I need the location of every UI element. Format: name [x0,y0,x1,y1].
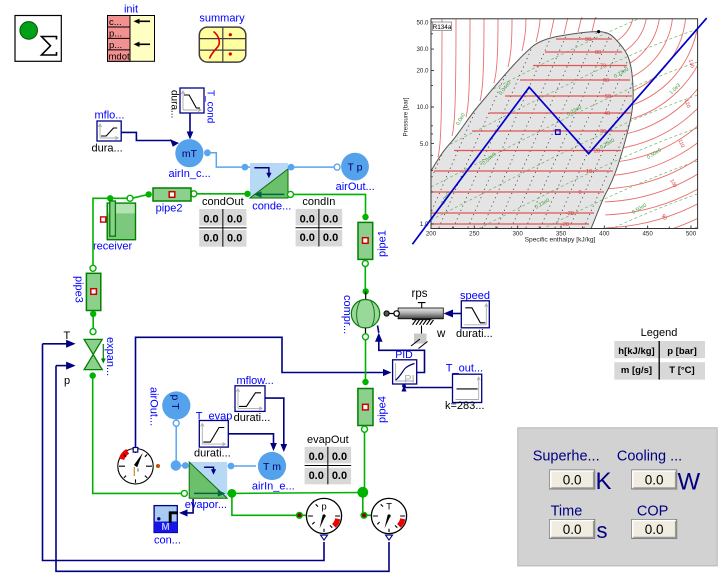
svg-text:0.0: 0.0 [203,213,218,225]
expansion valve [84,337,116,376]
wire valve to evaporator [90,372,96,378]
superheat value box [550,470,595,489]
temperature gauge T [371,498,406,540]
R134a label [433,22,452,31]
wire condenser to pipe2 [244,191,250,197]
condenser heat exchanger [250,163,291,213]
svg-text:mT: mT [182,148,198,160]
svg-text:0.0: 0.0 [645,522,664,537]
svg-text:250: 250 [469,231,480,238]
svg-text:conde...: conde... [252,201,291,213]
wire pipe1 to compressor [362,261,368,267]
pipe3 [73,273,101,310]
summary record icon U_sigma [15,16,61,62]
init block [108,4,155,63]
svg-text:0.0: 0.0 [203,232,218,244]
wire T_cond to airIn_cond [189,113,191,136]
svg-text:condIn: condIn [302,196,335,208]
svg-text:w: w [436,328,446,340]
evaporator heat exchanger [185,462,227,511]
red isotherms two-phase region [431,39,632,224]
svg-text:M: M [161,522,169,533]
svg-text:Pressure [bar]: Pressure [bar] [403,97,410,136]
svg-text:p T: p T [169,395,181,411]
boundary airOut_evap (p T) [148,387,191,426]
svg-text:0.0: 0.0 [563,473,582,488]
svg-text:-20: -20 [566,211,574,217]
display table condOut [199,196,246,247]
svg-text:s: s [597,518,608,543]
p-h diagram chart background [431,19,698,229]
svg-text:-28: -28 [561,222,569,228]
wire junction to p gauge [232,493,297,515]
refrigeration cycle blue line [412,18,706,244]
wire compressor to pipe4 [365,328,367,334]
svg-text:dura...: dura... [92,143,123,155]
saturation dome outline [431,32,633,229]
junction node evap outlet [357,487,368,498]
svg-text:airIn_e...: airIn_e... [252,481,295,493]
svg-text:10: 10 [586,169,592,175]
svg-text:500: 500 [686,231,697,238]
svg-text:90: 90 [585,37,591,43]
critical point [597,30,600,33]
svg-text:PI: PI [404,374,414,386]
svg-text:400: 400 [599,231,610,238]
ramp source mflow (evap air) [234,375,274,424]
boundary airOut_cond (T p) [336,153,375,193]
svg-text:pipe2: pipe2 [156,203,183,215]
wire pipe2 to receiver [146,191,152,197]
svg-text:Legend: Legend [641,327,678,339]
wire T_out to PID setpoint [404,387,453,390]
svg-text:durati...: durati... [234,412,271,424]
boundary airIn_evap (T m) [252,452,295,493]
wire evaporator to controller [186,499,193,513]
svg-text:10.0: 10.0 [416,104,429,111]
wire receiver to pipe3 [93,198,110,265]
valve input p arrow [56,365,67,367]
compressor [341,295,380,334]
saturation dome fill [431,32,633,229]
svg-text:p: p [64,375,70,387]
svg-text:summary: summary [199,13,245,25]
legend table [614,327,705,380]
air wire airIn_cond to condenser [204,149,211,156]
air wire condenser to airOut_cond [288,164,295,171]
wire PID to compressor speed input [379,341,425,373]
pipe1 [358,222,389,259]
svg-text:pipe1: pipe1 [377,230,389,257]
svg-text:T_cond: T_cond [205,90,216,123]
air wire airOut_evap to evaporator [173,420,179,426]
svg-text:0: 0 [578,190,581,196]
svg-text:T m: T m [263,461,281,473]
chart frame and axes [431,19,698,229]
svg-text:dura...: dura... [169,90,180,118]
svg-text:Cooling ...: Cooling ... [617,449,682,465]
svg-text:init: init [124,4,138,16]
svg-text:p...: p... [109,28,122,39]
air wire evaporator to airIn_evap [228,463,235,470]
evapOut display table [305,434,352,485]
valve input T arrow [43,343,68,345]
feedback wire p (from p gauge) [56,366,389,572]
svg-text:30.0: 30.0 [416,46,429,53]
svg-text:80: 80 [595,50,601,56]
wire pipe3 to expansion valve [90,311,96,317]
red isotherms liquid region [438,17,596,157]
ramp source T_evap [194,410,232,459]
svg-text:Superhe...: Superhe... [533,449,600,465]
svg-text:50: 50 [605,94,611,100]
constant block T_out_evap [445,363,484,413]
pipe2 [153,188,191,215]
pipe4 [358,389,389,426]
svg-text:compr...: compr... [341,295,353,334]
svg-text:durati...: durati... [456,328,493,340]
rotational speed source rps [384,288,446,349]
svg-text:W: W [678,469,701,496]
wire T_evap to airIn_evap [228,434,273,446]
feedback wire T (from T gauge) [43,344,325,561]
svg-text:5.0: 5.0 [420,141,429,148]
svg-text:COP: COP [637,504,668,520]
svg-text:300: 300 [512,231,523,238]
cop value box [632,520,677,539]
wire evaporator outlet [228,489,237,498]
svg-text:0.0: 0.0 [323,232,338,244]
svg-text:durati...: durati... [194,448,231,460]
display table condIn [296,196,343,247]
svg-text:p: p [321,502,326,513]
svg-text:200: 200 [426,231,437,238]
svg-text:50.0: 50.0 [416,19,429,26]
svg-text:60: 60 [603,78,609,84]
svg-text:Specific enthalpy [kJ/kg]: Specific enthalpy [kJ/kg] [525,237,596,244]
svg-text:0.0: 0.0 [309,451,324,463]
svg-text:rps: rps [412,288,428,300]
svg-text:70: 70 [600,64,606,70]
wire mflo to airIn_cond [121,132,172,140]
svg-text:T_out...: T_out... [446,363,483,375]
svg-text:h[kJ/kg]: h[kJ/kg] [618,346,654,357]
svg-text:0.0: 0.0 [300,213,315,225]
receiver [93,201,136,253]
svg-text:evapOut: evapOut [307,434,349,446]
isentrope green dashed lines [431,0,698,484]
controller con (motor) [154,506,181,547]
svg-text:K: K [596,468,612,495]
svg-text:0.0: 0.0 [300,232,315,244]
cooling value box [632,470,677,489]
svg-text:evapor...: evapor... [185,499,227,511]
svg-text:expan...: expan... [104,337,116,376]
wire superheat gauge to PID [136,337,386,447]
svg-text:k=283...: k=283... [445,400,484,412]
results panel [518,428,717,566]
superheat gauge [118,448,160,484]
ramp source speed [456,290,493,340]
time value box [550,520,595,539]
svg-text:450: 450 [642,231,653,238]
red isotherms vapor region [599,13,720,254]
svg-text:p [bar]: p [bar] [667,346,697,357]
svg-text:airIn_c...: airIn_c... [169,168,211,180]
wire junction to T gauge [362,492,364,515]
svg-text:0.0: 0.0 [563,522,582,537]
svg-text:mdot: mdot [109,51,130,62]
svg-text:airOut...: airOut... [148,387,160,426]
svg-text:40: 40 [604,111,610,117]
wire mflow to airIn_evap [265,398,284,447]
svg-text:mflo...: mflo... [95,110,125,122]
svg-text:0.0: 0.0 [309,470,324,482]
quality dotted lines [408,14,720,232]
svg-text:p...: p... [109,40,122,51]
svg-text:pipe3: pipe3 [73,276,85,303]
wire pipe4 to evap outlet junction [362,426,368,432]
svg-text:Time: Time [551,504,583,520]
ramp source mflo (cond air flow) [92,110,125,155]
svg-text:c...: c... [109,17,122,28]
svg-text:20.0: 20.0 [416,68,429,75]
svg-text:0.0: 0.0 [332,451,347,463]
svg-text:T [°C]: T [°C] [669,365,694,376]
svg-text:0.0: 0.0 [227,232,242,244]
summary block [199,13,246,63]
svg-text:0.0: 0.0 [323,213,338,225]
svg-text:R134a: R134a [433,24,452,31]
svg-text:0.0: 0.0 [332,470,347,482]
svg-text:condOut: condOut [202,196,244,208]
svg-text:receiver: receiver [93,241,132,253]
svg-text:20: 20 [594,149,600,155]
svg-text:0.0: 0.0 [645,473,664,488]
svg-text:airOut...: airOut... [336,181,375,193]
wire speed to rps [453,313,461,315]
wire condenser to pipe1 [288,191,294,197]
svg-text:0.0: 0.0 [227,213,242,225]
cycle state marker [556,130,561,135]
PID controller block [393,349,417,386]
svg-text:T: T [386,502,392,513]
svg-text:pipe4: pipe4 [377,396,389,423]
svg-text:con...: con... [154,535,181,547]
ramp source T_cond [169,88,216,123]
boundary airIn_cond (mT) [169,139,211,180]
svg-text:T p: T p [348,162,363,174]
pressure gauge p [306,498,341,540]
svg-text:m [g/s]: m [g/s] [621,365,652,376]
